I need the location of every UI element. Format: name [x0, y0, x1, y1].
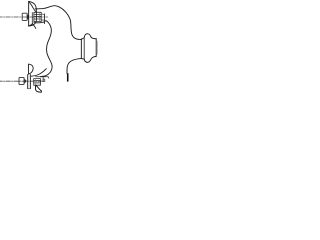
cone tip lower: [24, 79, 26, 83]
dome caps lower: [28, 88, 31, 90]
cartridge box lower: [34, 79, 41, 86]
cone tip upper: [27, 15, 29, 20]
spout end cap: [40, 91, 42, 93]
bottom flare stub: [33, 24, 36, 29]
centerline upper (dash-dot): [0, 16, 48, 18]
pipe elbow from knob down: [67, 59, 81, 74]
lower knob dome: [29, 64, 34, 74]
stem end line upper: [44, 14, 46, 24]
spout lever and arch pipe to knob: [35, 6, 81, 40]
cartridge stripes upper: [34, 14, 41, 19]
bottom lever to hook nose: [34, 21, 45, 23]
centerline lower (dash-dot): [0, 80, 44, 82]
spout lower edge lower: [36, 85, 42, 92]
stem step ticks upper: [41, 14, 44, 20]
cartridge box upper: [34, 12, 41, 21]
tail inner edge sweep: [31, 69, 46, 76]
cartridge stripes lower: [34, 81, 41, 83]
top bar lower: [36, 77, 49, 78]
bell rim upper: [28, 1, 30, 26]
knob right inner line: [96, 41, 98, 54]
knob bottom profile: [81, 56, 96, 62]
neck line upper: [31, 13, 33, 24]
background: [0, 0, 100, 100]
knob left plate: [80, 39, 82, 59]
knob inner seam: [83, 38, 85, 59]
cartridge inner seams upper: [39, 12, 41, 21]
bell bottom edge upper: [29, 24, 33, 26]
nozzle bar: [67, 73, 69, 81]
bell dome bulge upper: [29, 1, 37, 26]
dome rim left lower: [27, 75, 29, 89]
knob right face: [95, 39, 97, 57]
spout upper edge lower: [36, 85, 41, 90]
stem vertical lower: [42, 77, 44, 81]
dome rim right lower: [29, 75, 31, 89]
square nut upper: [22, 13, 27, 20]
stem step bracket lower: [43, 79, 45, 81]
cartridge inner seams lower: [35, 79, 37, 86]
tail pipe S-curve down to lower valve: [40, 21, 52, 77]
knob top profile: [81, 34, 96, 40]
top flare stub: [29, 2, 36, 12]
square nut lower: [19, 77, 24, 84]
